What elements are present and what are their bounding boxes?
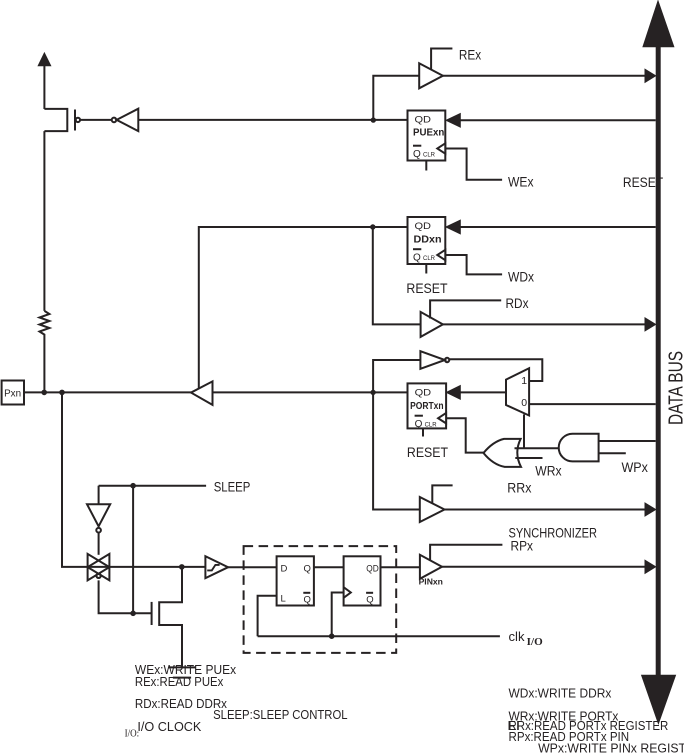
wire toggle inverter output to mux input 1 <box>449 359 542 381</box>
node sleep gate junction <box>130 611 136 617</box>
wire PINxn output to data bus <box>442 566 646 568</box>
arrowhead PORTxn D <box>446 386 460 400</box>
buffer RDx (tri-state, points right) <box>421 300 502 337</box>
svg-text:PUExn: PUExn <box>413 128 444 139</box>
node clk junction <box>329 633 335 639</box>
wire REx output to data bus <box>443 75 646 77</box>
wire DDxn Q to pin driver enable <box>199 227 408 388</box>
wire RDx output to data bus <box>443 323 646 325</box>
svg-text:QD: QD <box>415 221 432 232</box>
svg-text:QD: QD <box>415 387 432 398</box>
node sleep-branch junction <box>59 390 65 396</box>
svg-text:clk: clk <box>509 629 526 644</box>
wire PORTxn Q up to toggle inverter <box>373 360 420 392</box>
svg-text:CLR: CLR <box>425 423 438 429</box>
svg-text:I/O CLOCK: I/O CLOCK <box>137 719 201 734</box>
svg-text:RESET: RESET <box>406 280 448 296</box>
node PUExn Q junction <box>371 117 376 122</box>
svg-text:Q: Q <box>304 564 311 575</box>
svg-text:Q: Q <box>415 419 423 430</box>
wire latch2 Q to PINxn buffer <box>381 566 420 568</box>
svg-text:WRx: WRx <box>535 463 561 479</box>
legend right <box>508 685 684 755</box>
svg-text:D: D <box>281 564 288 575</box>
transistor pull-up PMOS <box>44 109 80 131</box>
wire inverter input to PUExn Q <box>138 119 407 121</box>
svg-text:WDx: WDx <box>508 269 534 285</box>
svg-text:CLR: CLR <box>423 256 436 262</box>
svg-text:RPx: RPx <box>511 538 534 554</box>
wire RRx output to data bus <box>445 509 647 511</box>
and-gate PINx-write AND (points left) <box>559 434 656 462</box>
svg-text:WDx:WRITE DDRx: WDx:WRITE DDRx <box>509 685 612 700</box>
flip-flop PUExn <box>408 111 446 161</box>
svg-text:1: 1 <box>521 375 527 387</box>
wire mux output to PORTxn D <box>460 391 506 393</box>
pin box Pxn <box>2 381 24 405</box>
svg-text:L: L <box>281 594 286 605</box>
node resistor junction <box>41 390 47 396</box>
svg-text:RESET: RESET <box>407 444 449 460</box>
buffer REx (tri-state, points right) <box>419 49 452 89</box>
inverter toggle (points right with bubble) <box>420 351 449 369</box>
data bus top arrow <box>643 1 674 47</box>
svg-text:Q: Q <box>304 595 311 606</box>
arrowhead RRx to bus <box>645 503 656 516</box>
legend left <box>125 662 348 739</box>
pin driver (tri-state, points left) <box>191 381 213 405</box>
buffer PINxn <box>419 545 503 587</box>
svg-text:Pxn: Pxn <box>4 387 21 399</box>
svg-text:DDxn: DDxn <box>414 234 442 245</box>
svg-text:PINxn: PINxn <box>419 578 443 587</box>
synchronizer dashed box <box>244 546 397 653</box>
svg-text:REx: REx <box>459 47 481 63</box>
arrowhead REx to bus <box>645 69 656 82</box>
inverter U1 (pull-up enable, points left) <box>112 109 139 131</box>
node PORTxn Q junction <box>370 390 375 395</box>
svg-text:WPx:WRITE PINx REGISTER: WPx:WRITE PINx REGISTER <box>538 741 684 756</box>
svg-text:RDx: RDx <box>506 295 529 311</box>
VCC arrow <box>38 53 51 109</box>
svg-text:RRx: RRx <box>507 480 531 496</box>
label clk I/O <box>509 629 544 648</box>
wire PUExn D from data bus <box>460 119 656 121</box>
wire Pxn branch down to switch <box>62 392 206 567</box>
arrowhead PUExn D <box>446 114 460 128</box>
wire mux 0 input from data bus <box>529 403 656 405</box>
node DDxn Q junction <box>370 224 375 229</box>
wire DDxn Q down to RDx buffer <box>373 227 421 324</box>
wire latch1 Q to latch2 <box>314 566 344 568</box>
arrowhead DDxn D <box>446 220 460 234</box>
transistor NMOS clamp <box>152 567 182 667</box>
wire PUExn clock to WEx <box>445 149 502 180</box>
latch 2 (D flip-flop) <box>344 556 381 605</box>
wire DDxn clock to WDx <box>445 255 502 274</box>
svg-text:CLR: CLR <box>423 153 436 159</box>
wire clk line <box>258 635 500 637</box>
svg-text:PORTxn: PORTxn <box>410 401 444 412</box>
or-gate clock OR (points left) <box>484 439 563 467</box>
arrowhead RDx to bus <box>645 318 656 331</box>
svg-text:WEx: WEx <box>508 174 534 190</box>
wire mux select <box>523 414 525 448</box>
flip-flop PORTxn <box>408 383 447 430</box>
svg-text:I/O: I/O <box>527 636 543 648</box>
wire SLEEP line <box>99 485 207 487</box>
arrowhead PINxn to bus <box>645 560 656 573</box>
mux PORTxn-D <box>506 368 529 415</box>
latch 1 (D latch) <box>277 556 314 605</box>
resistor Rpu <box>40 131 50 390</box>
svg-text:Q: Q <box>413 253 421 264</box>
node switch output junction <box>179 564 185 570</box>
buffer RRx (tri-state, points right) <box>420 485 453 522</box>
transmission gate (analog switch) <box>88 554 110 581</box>
node SLEEP junction <box>130 483 136 489</box>
svg-text:Q: Q <box>366 595 373 606</box>
wire DDxn D from data bus <box>460 226 656 228</box>
wire PORTxn CLR stub <box>422 428 424 436</box>
svg-text:REx:READ PUEx: REx:READ PUEx <box>135 674 224 689</box>
svg-text:0: 0 <box>521 397 527 409</box>
flip-flop DDxn <box>408 217 446 264</box>
svg-text:QD: QD <box>366 564 379 575</box>
svg-text:SLEEP:SLEEP CONTROL: SLEEP:SLEEP CONTROL <box>213 707 348 722</box>
data bus bottom arrow <box>642 675 676 723</box>
svg-text:QD: QD <box>415 115 432 126</box>
wire PORTxn Q down to RRx buffer <box>373 392 420 509</box>
wire pin driver input from PORTxn Q <box>213 391 408 393</box>
data bus line <box>656 46 661 676</box>
wire PUExn CLR stub <box>425 161 427 171</box>
svg-text:WPx: WPx <box>622 459 648 475</box>
wire PORTxn clock to OR gate <box>446 418 484 452</box>
svg-text:DATA BUS: DATA BUS <box>666 351 684 425</box>
wire PMOS gate to inverter <box>80 119 112 121</box>
wire junction up to REx buffer <box>373 76 419 120</box>
ground <box>169 667 196 677</box>
wire schmitt to latch1 D <box>227 566 276 568</box>
svg-text:Q: Q <box>413 149 421 160</box>
svg-text:SLEEP: SLEEP <box>214 479 251 495</box>
wire SLEEP control vertical <box>132 486 134 614</box>
wire DDxn CLR stub <box>425 264 427 274</box>
wire latch1 L <box>258 596 277 637</box>
inverter sleep (points down) <box>87 486 110 555</box>
buffer schmitt trigger <box>205 556 228 578</box>
wire switch gate to sleep line <box>99 580 152 613</box>
wire latch2 clock <box>332 593 344 637</box>
wire Pxn to pin driver <box>24 391 191 393</box>
